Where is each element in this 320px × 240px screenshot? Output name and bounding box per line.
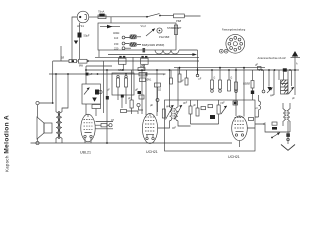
bottom chassis wire xyxy=(31,142,233,144)
bus blob cap xyxy=(86,73,89,76)
IF transformer 2 xyxy=(166,105,183,121)
osc transformer wires xyxy=(283,103,290,128)
resistor P60 xyxy=(174,14,185,18)
antenna coil with core xyxy=(281,80,289,94)
diode arrow in box xyxy=(100,25,120,29)
choke box Dr1 xyxy=(139,73,147,76)
screen feed wire xyxy=(106,70,108,143)
svg-text:150: 150 xyxy=(114,42,119,46)
pilot lamp pair xyxy=(219,49,228,53)
mains switch xyxy=(146,14,161,18)
dropper winding lower xyxy=(130,42,137,47)
svg-text:µµF: µµF xyxy=(183,102,188,105)
dropper / mains selector box xyxy=(98,23,176,50)
speaker terminal bottom xyxy=(36,139,39,145)
svg-text:V1,2: V1,2 xyxy=(141,24,147,28)
osc tube feeders xyxy=(236,68,255,147)
tap terminal 150V xyxy=(114,42,125,46)
svg-text:µF: µF xyxy=(135,88,138,92)
main bus lower xyxy=(49,73,164,75)
dial lamp La xyxy=(157,28,162,33)
svg-text:Ω: Ω xyxy=(231,78,233,80)
svg-text:50µF: 50µF xyxy=(84,34,90,38)
AF feed wire xyxy=(121,95,123,108)
wire fuse to switch xyxy=(106,17,147,23)
svg-text:P12/15Ø: P12/15Ø xyxy=(159,35,169,39)
svg-text:UBL21: UBL21 xyxy=(80,151,91,155)
svg-text:µF: µF xyxy=(193,104,196,107)
box wires xyxy=(118,87,126,104)
bus jog segment xyxy=(86,65,112,67)
resistor Ra xyxy=(117,75,120,87)
svg-text:µF: µF xyxy=(107,90,110,92)
right feeders xyxy=(264,70,296,95)
box bottom right cap xyxy=(143,48,146,52)
volume pot arrow xyxy=(84,88,90,95)
coil trimmer arrow xyxy=(289,87,295,94)
svg-text:µF: µF xyxy=(181,81,184,83)
small parts row mid xyxy=(170,68,238,93)
heater line with arrow xyxy=(108,53,197,56)
IF can 1 xyxy=(119,56,127,64)
svg-text:µF: µF xyxy=(199,79,202,81)
diode triangle xyxy=(92,98,97,102)
main bus upper xyxy=(86,69,299,71)
svg-text:Antennenbuchse üb.AZ: Antennenbuchse üb.AZ xyxy=(258,56,286,60)
title text Kapsch Melodion A (vertical) xyxy=(4,115,11,172)
AF network box xyxy=(112,73,134,95)
svg-text:5Ø: 5Ø xyxy=(61,58,64,60)
screen parts right of mixer xyxy=(155,83,161,112)
capacitor on aux wire xyxy=(69,60,77,63)
circle on box edge xyxy=(99,90,102,93)
antenna series cap xyxy=(283,68,287,71)
value labels osc xyxy=(166,102,225,109)
screen resistor right xyxy=(251,70,254,100)
svg-text:µF: µF xyxy=(255,63,258,67)
svg-text:Ω: Ω xyxy=(214,78,216,80)
svg-text:UCH21: UCH21 xyxy=(228,155,240,159)
svg-text:µF: µF xyxy=(163,74,166,76)
osc coil L3 xyxy=(259,95,261,117)
small cap left xyxy=(258,67,262,72)
resistor small h xyxy=(138,68,145,71)
antenna trimmer arrow xyxy=(267,88,273,94)
trimmer arrowheads xyxy=(171,105,182,108)
svg-text:220: 220 xyxy=(114,47,119,51)
mid bus second xyxy=(174,67,265,69)
svg-text:µF: µF xyxy=(90,73,93,76)
svg-text:Ω2: Ω2 xyxy=(158,90,162,92)
svg-text:ØN1: ØN1 xyxy=(147,80,152,82)
wire rectifier right xyxy=(89,16,98,18)
electrolytic capacitor C30 xyxy=(78,23,82,60)
scattered value labels xyxy=(61,58,298,130)
svg-text:8W: 8W xyxy=(79,64,83,68)
left vertical feeders xyxy=(53,61,68,112)
resistor 8W xyxy=(79,59,88,63)
svg-text:Fassungsbeschaltung: Fassungsbeschaltung xyxy=(222,29,246,32)
screen blob xyxy=(106,96,109,100)
svg-text:P6Ø: P6Ø xyxy=(176,19,181,23)
transformer core xyxy=(58,111,59,139)
coupling network box xyxy=(82,84,101,104)
mixer tube UCH21 xyxy=(142,114,157,144)
grid cap blob xyxy=(233,101,238,105)
antenna symbol xyxy=(291,51,301,71)
tap wires xyxy=(125,37,141,48)
svg-text:2ØØ: 2ØØ xyxy=(140,66,145,68)
coupling cap dark xyxy=(95,90,99,95)
tap terminal 220V xyxy=(114,47,125,51)
loudspeaker xyxy=(37,117,52,139)
svg-text:µF: µF xyxy=(150,103,153,107)
dropper winding upper xyxy=(130,35,137,40)
network wires xyxy=(96,61,104,116)
svg-text:µF: µF xyxy=(263,124,266,126)
rectifier tube AY11 xyxy=(77,11,89,23)
cathode components xyxy=(95,122,113,129)
padder caps xyxy=(272,122,277,130)
output tube UBL21 xyxy=(81,114,95,143)
tap terminal 110V xyxy=(114,36,125,40)
pot arrow V1,2 xyxy=(146,29,155,37)
svg-text:µµF: µµF xyxy=(270,95,275,97)
svg-text:A: A xyxy=(296,63,298,66)
heater winding bumps xyxy=(155,50,198,74)
grid leak resistor xyxy=(92,105,101,109)
wave switch arrow xyxy=(271,133,280,139)
osc tube UCH21 xyxy=(232,116,248,141)
speaker terminal top xyxy=(36,101,53,117)
svg-text:L3: L3 xyxy=(255,108,258,110)
wire rectifier left xyxy=(72,17,77,62)
resistor on box right edge xyxy=(174,25,177,35)
AF blob xyxy=(121,95,124,98)
svg-text:70mA: 70mA xyxy=(98,11,105,14)
connect box to coils xyxy=(255,117,290,132)
can feeders xyxy=(123,57,144,73)
resistor Rb xyxy=(125,75,128,87)
output transformer primary xyxy=(56,112,59,138)
heater return line xyxy=(95,50,199,57)
svg-text:B4Ø(24/Ø2 Ø7ØØ): B4Ø(24/Ø2 Ø7ØØ) xyxy=(142,43,164,47)
svg-text:µµF: µµF xyxy=(172,128,177,130)
aux supply wire xyxy=(53,46,199,61)
svg-text:UCH21: UCH21 xyxy=(146,150,158,154)
svg-text:AY11: AY11 xyxy=(77,24,84,28)
svg-text:Kapsch Melodion A: Kapsch Melodion A xyxy=(4,115,11,172)
wire P60 right and down xyxy=(184,15,200,17)
output transformer secondary xyxy=(59,112,62,138)
cap box below Dr1 xyxy=(140,78,146,82)
earth symbol xyxy=(281,121,295,150)
wire switch to resistor P60 xyxy=(161,15,174,17)
IF2 feeders xyxy=(158,68,191,128)
svg-text:µµF: µµF xyxy=(221,102,226,105)
UBL21 anode feed xyxy=(85,66,87,115)
grid stopper resistor xyxy=(121,110,139,115)
IF can 2 xyxy=(141,56,149,64)
tube socket diagram xyxy=(226,34,245,53)
osc transformer xyxy=(283,109,290,121)
svg-text:400Ω: 400Ω xyxy=(113,31,119,35)
mixer feeders xyxy=(142,70,157,143)
svg-text:µµF: µµF xyxy=(166,105,171,108)
oscillator box xyxy=(165,100,256,151)
coupling cap C12 xyxy=(139,95,144,99)
svg-text:µF: µF xyxy=(292,98,295,100)
fuse Si1 xyxy=(98,14,106,19)
polarity arrow xyxy=(74,41,78,45)
svg-text:110: 110 xyxy=(114,36,119,40)
triode grid parts xyxy=(130,70,143,114)
grid blob xyxy=(138,91,142,94)
svg-text:Ω7: Ω7 xyxy=(111,120,115,122)
osc small parts xyxy=(162,100,253,124)
OT bottom wires xyxy=(56,138,62,143)
